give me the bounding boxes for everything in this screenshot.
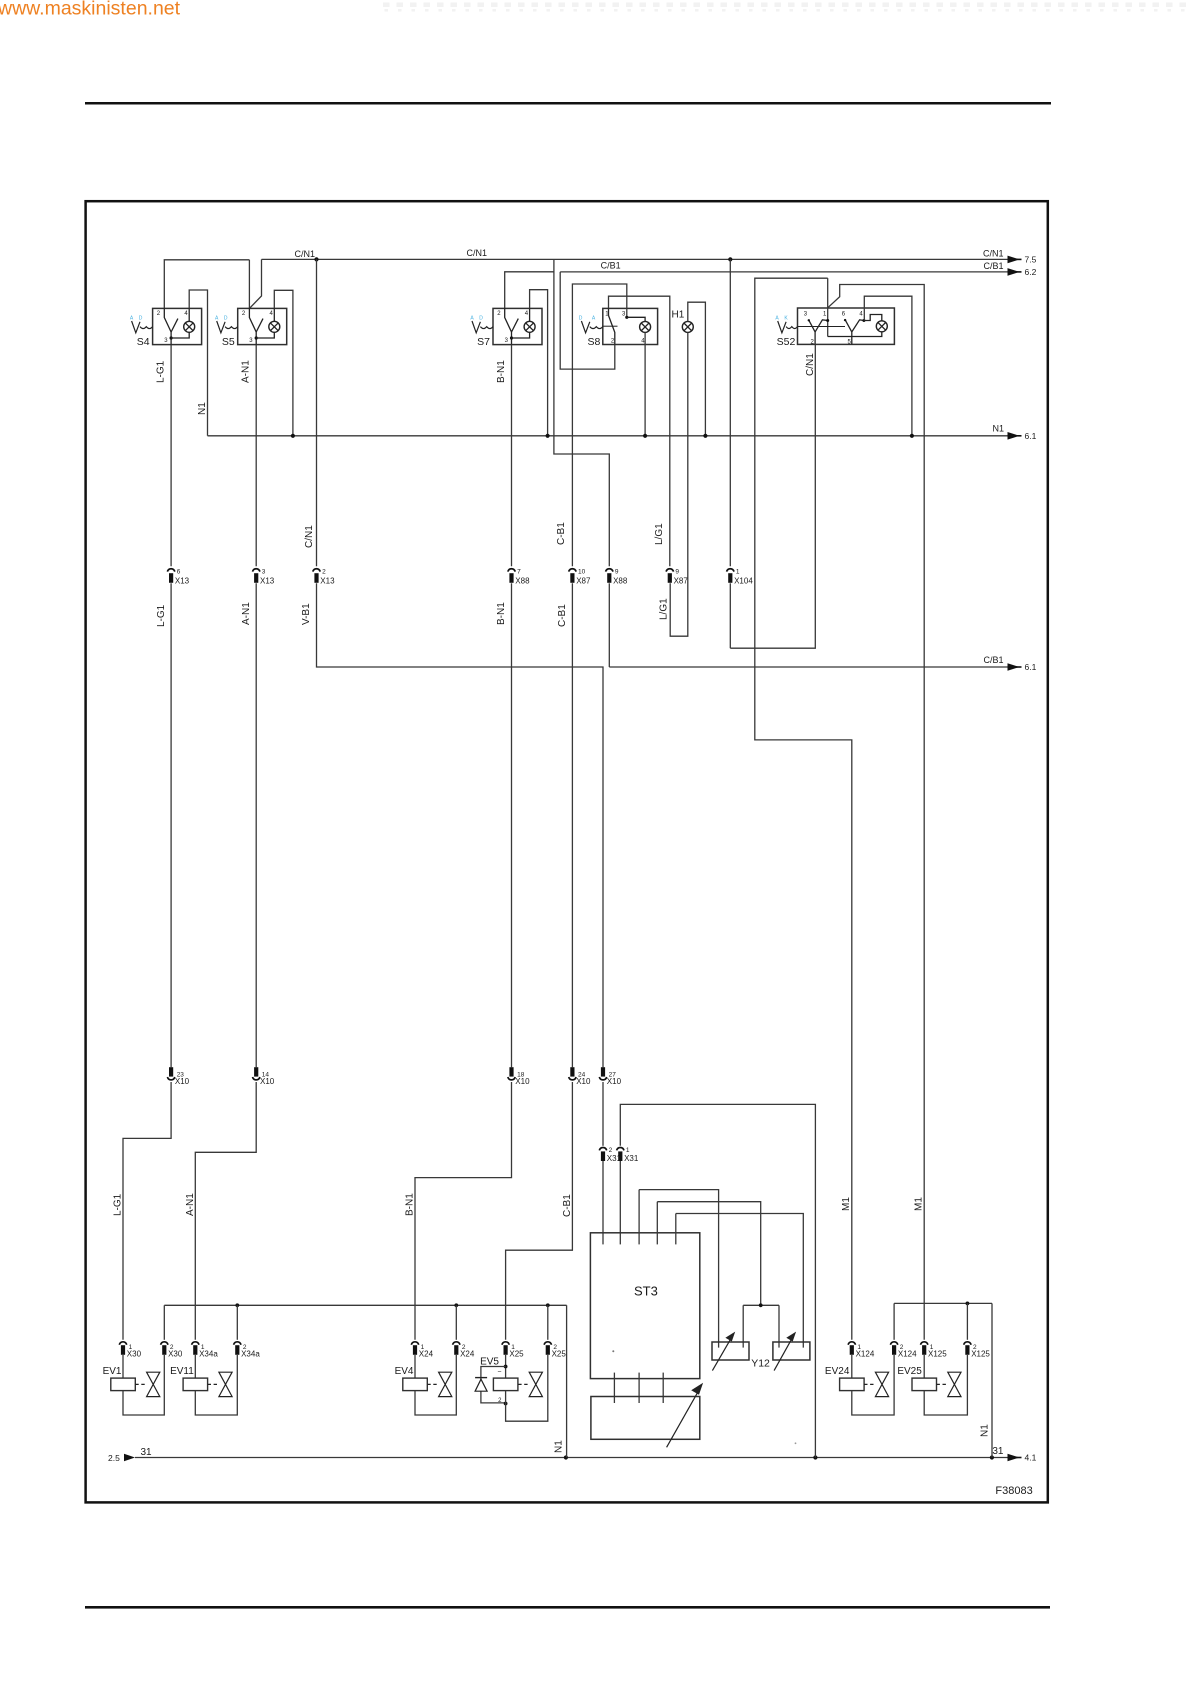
arrow 31 from 2.5: [124, 1454, 135, 1462]
wire S4 pin3 L-G1 down to X13: [170, 345, 172, 567]
wire X124-2 riser: [893, 1303, 895, 1339]
bus N1 of EV group right: [894, 1302, 992, 1304]
node N1 H1: [703, 434, 707, 438]
svg-text:L/G1: L/G1: [659, 598, 670, 620]
svg-text:C/N1: C/N1: [983, 249, 1004, 259]
wire C/N1 to X104 pin1: [729, 259, 731, 566]
wire EV1 return loop: [123, 1355, 164, 1415]
valve EV4 symbol: [427, 1383, 438, 1385]
svg-text:C/N1: C/N1: [294, 249, 315, 259]
connector X10 pin 14: [254, 1067, 258, 1076]
connector X88 pin 9: [606, 569, 613, 572]
wire EV4 return loop: [415, 1355, 456, 1415]
svg-text:S8: S8: [587, 336, 600, 348]
connector X30 pin 1: [119, 1342, 126, 1345]
svg-text:F38083: F38083: [995, 1485, 1032, 1497]
svg-text:A-N1: A-N1: [185, 1193, 196, 1216]
connector X13 pin 2: [313, 569, 320, 572]
lamp in S5: [273, 308, 275, 321]
stray mark in ST3: [612, 1350, 614, 1352]
top rule: [85, 102, 1051, 105]
wire S52 lamp step: [864, 315, 882, 321]
node N1 S7: [546, 434, 550, 438]
connector X124 pin 1: [848, 1342, 855, 1345]
svg-text:6.1: 6.1: [1025, 431, 1037, 441]
connector X13 pin 3: [253, 569, 260, 572]
svg-text:H1: H1: [672, 309, 685, 320]
svg-text:7.5: 7.5: [1025, 254, 1037, 264]
svg-text:C/N1: C/N1: [805, 353, 816, 376]
svg-text:1: 1: [626, 1147, 630, 1154]
arrow C/N1 to 7.5: [1008, 256, 1020, 264]
svg-text:S4: S4: [137, 336, 150, 348]
wire X10-27 to X31 pin2: [602, 1082, 604, 1146]
control unit ST3 body: [590, 1233, 699, 1379]
bus N1: [208, 435, 1008, 437]
wire EV5 return loop: [506, 1355, 548, 1421]
svg-text:S5: S5: [222, 336, 235, 348]
node Y12 center: [759, 1303, 763, 1307]
ST3 sensor arrow: [667, 1392, 698, 1448]
wire S5 pin2 diagonal to C/N1: [249, 259, 261, 308]
svg-text:X31: X31: [624, 1154, 639, 1163]
svg-text:Y12: Y12: [751, 1357, 770, 1369]
svg-text:2.5: 2.5: [108, 1453, 120, 1463]
bus 31 bottom: [135, 1457, 1008, 1459]
svg-text:EV1: EV1: [103, 1366, 122, 1377]
svg-text:M1: M1: [914, 1197, 925, 1211]
valve EV24 symbol: [864, 1383, 875, 1385]
connector X24 pin 1: [411, 1342, 418, 1345]
svg-text:9: 9: [615, 569, 619, 576]
wire X31-1 to ST3 pin: [619, 1161, 621, 1244]
solenoid Y12 coil b: [773, 1342, 810, 1360]
svg-text:X124: X124: [898, 1350, 917, 1359]
arrow C/B1 to 6.2: [1008, 268, 1020, 276]
svg-text:6.1: 6.1: [1025, 662, 1037, 672]
connector X25 pin 2: [544, 1342, 551, 1345]
valve EV1 symbol: [135, 1383, 146, 1385]
wire S4 pin4 to N1: [189, 290, 207, 436]
node 31 x992: [990, 1455, 994, 1459]
connector X10 pin 24: [570, 1067, 574, 1076]
svg-text:N1: N1: [992, 424, 1004, 434]
connector X10 pin 27: [601, 1067, 605, 1076]
svg-text:X10: X10: [260, 1077, 275, 1086]
switch S4 actuator: [132, 321, 140, 333]
connector X30 pin 2: [161, 1342, 168, 1345]
switch S8 body: [603, 308, 658, 344]
svg-text:B-N1: B-N1: [496, 360, 507, 383]
wire EV11 return loop: [195, 1355, 237, 1415]
connector X125 pin 1: [921, 1342, 928, 1345]
wire X88 pin9 to C/B1 lower bus: [608, 583, 610, 667]
svg-text:−: −: [497, 1369, 501, 1376]
wire S5 pin2 riser: [248, 260, 250, 309]
arrow N1 to 6.1: [1008, 432, 1020, 440]
svg-text:X10: X10: [175, 1077, 190, 1086]
connector X104 pin 1: [727, 569, 734, 572]
svg-text:N1: N1: [980, 1424, 991, 1437]
node S8 pin3: [625, 316, 628, 319]
svg-text:www.maskinisten.net: www.maskinisten.net: [0, 0, 181, 20]
node bus X24-2: [454, 1303, 458, 1307]
wire right group to 31 N1: [991, 1303, 993, 1457]
node N1 S8: [643, 434, 647, 438]
connector X125 pin 2: [964, 1342, 971, 1345]
svg-text:X24: X24: [460, 1350, 475, 1359]
node bus X34a2: [235, 1303, 239, 1307]
connector X24 pin 2: [453, 1342, 460, 1345]
valve EV1 coil: [111, 1378, 136, 1391]
connector X34a pin 2: [234, 1342, 241, 1345]
switch S8 actuator: [581, 321, 589, 333]
wire ST3 to Y12 coil a left: [639, 1190, 719, 1348]
wire X104 below: [729, 583, 731, 648]
arrow 31 to 4.1: [1008, 1454, 1020, 1462]
node C/N1 x316: [314, 257, 318, 261]
svg-text:X88: X88: [515, 577, 530, 586]
svg-text:X10: X10: [576, 1077, 591, 1086]
svg-text:X125: X125: [928, 1350, 947, 1359]
ST3 sensor box: [591, 1397, 700, 1440]
connector X31 pin 2: [599, 1148, 606, 1151]
wire H1 top to N1: [688, 302, 706, 436]
node EV5 top: [504, 1365, 508, 1369]
wire S4 pin2 to S5 pin2: [164, 260, 249, 309]
svg-text:B-N1: B-N1: [404, 1193, 415, 1216]
wire X30-1 to EV1: [122, 1355, 124, 1378]
svg-text:X25: X25: [552, 1350, 567, 1359]
switch S5 actuator: [217, 321, 225, 333]
svg-text:EV5: EV5: [480, 1357, 499, 1368]
wire S52 lamp bottom to pin1: [828, 332, 882, 337]
switch S5 lever: [249, 308, 256, 332]
svg-text:X30: X30: [168, 1350, 183, 1359]
wire X10-14 to X34a pin1 A-N1: [195, 1082, 256, 1340]
top edge faint pattern: [383, 3, 1186, 12]
wire C/N1 to X88 pin9 via right jog: [554, 259, 609, 566]
svg-text:A-N1: A-N1: [241, 602, 252, 625]
wire S52 pin1 diagonal route to EV25: [828, 285, 925, 1340]
svg-text:N1: N1: [197, 402, 208, 415]
connector X87 pin 9: [666, 569, 673, 572]
wire bus to X25 pin2: [547, 1305, 549, 1340]
switch S7 actuator: [472, 321, 480, 333]
valve EV5 coil: [493, 1378, 518, 1391]
svg-text:A-N1: A-N1: [241, 360, 252, 383]
wire bus left group to 31: [566, 1305, 568, 1457]
svg-text:B-N1: B-N1: [496, 602, 507, 625]
wire S52 pin1 riser from C/N1 route: [827, 278, 829, 336]
switch S7 pin 3 node: [510, 336, 513, 339]
wire Y12 center junction bar: [743, 1304, 779, 1306]
wire S5 pin3 A-N1 down to X13: [255, 345, 257, 567]
svg-text:2: 2: [322, 569, 326, 576]
switch S4 pin 3 node: [170, 336, 173, 339]
ST3 bottom pin stubs: [613, 1373, 615, 1403]
svg-text:EV4: EV4: [395, 1366, 414, 1377]
wire V-B1 X13-2 to X10-27: [317, 583, 604, 1067]
connector X10 pin 23: [169, 1067, 173, 1076]
wire S52 pin2 C/N1 to X104: [730, 344, 815, 648]
svg-text:X10: X10: [607, 1077, 622, 1086]
Y12 coil a arrow: [712, 1338, 731, 1370]
svg-text:L/G1: L/G1: [654, 523, 665, 545]
svg-text:9: 9: [675, 569, 679, 576]
switch S4 lever: [164, 308, 171, 332]
switch S7 lever: [505, 308, 512, 332]
svg-text:X10: X10: [515, 1077, 530, 1086]
valve EV25 symbol: [937, 1383, 948, 1385]
svg-text:1: 1: [736, 569, 740, 576]
wire H1 bottom to X87 pin9 L/G1: [670, 332, 688, 636]
valve EV11 coil: [183, 1378, 208, 1391]
bus C/N1: [262, 258, 1008, 260]
lamp in S8: [640, 321, 651, 332]
svg-text:X13: X13: [320, 577, 335, 586]
svg-text:3: 3: [262, 569, 266, 576]
wire L-G1 X13-6 to X10-23: [170, 583, 172, 1067]
switch S52 actuator: [778, 321, 786, 333]
Y12 coil b arrow: [774, 1338, 792, 1370]
switch S52 lever b: [845, 320, 852, 332]
bus C/B1 upper: [560, 271, 1007, 273]
node EV5 bottom: [504, 1402, 508, 1406]
svg-text:X25: X25: [509, 1350, 524, 1359]
wire C/N1 junction down to X13 pin2: [316, 259, 318, 566]
valve EV5 symbol: [518, 1383, 528, 1385]
wire S8 pin3 to lamp: [627, 317, 645, 321]
wire bus to X30 pin2: [163, 1305, 165, 1340]
svg-text:6.2: 6.2: [1025, 267, 1037, 277]
wire X25-1 to EV5: [505, 1355, 507, 1378]
wire S8 pin1 to X87 pin9: [609, 296, 670, 566]
wire S8 lamp to N1: [644, 332, 646, 435]
svg-text:S52: S52: [777, 336, 796, 348]
svg-text:D: D: [479, 316, 483, 322]
wire X125-1 to EV25: [923, 1355, 925, 1378]
svg-text:D: D: [224, 316, 228, 322]
svg-text:2: 2: [609, 1147, 613, 1154]
switch S5 pin 3 node: [255, 336, 258, 339]
svg-text:X104: X104: [734, 577, 753, 586]
lamp in S4: [188, 308, 190, 321]
svg-text:X34a: X34a: [241, 1350, 260, 1359]
arrow C/B1 lower to 6.1: [1008, 663, 1020, 671]
svg-text:X87: X87: [576, 577, 591, 586]
svg-text:X34a: X34a: [199, 1350, 218, 1359]
wire S8 pin2 to C/B1: [560, 272, 615, 369]
svg-text:X30: X30: [127, 1350, 142, 1359]
svg-text:6: 6: [177, 569, 181, 576]
wire X10-18 to X24 pin1 B-N1: [415, 1082, 512, 1340]
svg-text:C/B1: C/B1: [983, 261, 1003, 271]
node S52 pin1 contact: [826, 319, 829, 322]
svg-text:M1: M1: [841, 1197, 852, 1211]
switch S52 body: [798, 308, 895, 344]
switch S52 lever a: [809, 320, 816, 332]
wire ST3 to Y12 coil b right: [676, 1214, 804, 1348]
node 31 x815: [813, 1455, 817, 1459]
switch S8 lever: [608, 308, 610, 315]
wire B-N1 X88-7 to X10-18: [511, 583, 513, 1067]
wire S7 pin2 riser to junction: [505, 272, 554, 309]
svg-text:C/B1: C/B1: [983, 655, 1003, 665]
valve EV24 coil: [840, 1378, 865, 1391]
svg-text:X24: X24: [419, 1350, 434, 1359]
valve EV25 coil: [912, 1378, 937, 1391]
wire X10-23 to X30 pin1 L-G1: [123, 1082, 171, 1340]
wire bus to X24 pin2: [455, 1305, 457, 1340]
svg-text:S7: S7: [477, 336, 490, 348]
diode bypass EV5: [481, 1367, 506, 1403]
border frame: [86, 201, 1048, 1502]
svg-text:EV11: EV11: [170, 1366, 194, 1377]
diode EV5: [475, 1377, 487, 1379]
wire A-N1 X13-3 to X10-14: [255, 583, 257, 1067]
svg-text:L-G1: L-G1: [156, 360, 167, 383]
solenoid Y12 coil a: [712, 1342, 749, 1360]
svg-text:4.1: 4.1: [1025, 1453, 1037, 1463]
svg-text:X87: X87: [674, 577, 689, 586]
node 31 x566: [564, 1455, 568, 1459]
svg-text:N1: N1: [554, 1440, 565, 1453]
node N1 S52: [910, 434, 914, 438]
wire bus to X34a pin2: [236, 1305, 238, 1340]
wire X124-1 to EV24: [851, 1355, 853, 1378]
svg-text:C/B1: C/B1: [601, 260, 621, 270]
wire X31-1 up and over to 31 bus: [620, 1104, 815, 1457]
wire EV24 return loop: [852, 1355, 894, 1415]
lamp in S7: [529, 308, 531, 321]
switch S4 body: [153, 308, 202, 344]
wire X34a-1 to EV11: [194, 1355, 196, 1378]
svg-text:C-B1: C-B1: [557, 604, 568, 627]
ST3 top pin stubs: [638, 1190, 640, 1245]
wire X125-2 riser: [966, 1303, 968, 1339]
svg-text:X13: X13: [175, 577, 190, 586]
svg-text:X88: X88: [613, 577, 628, 586]
svg-text:L-G1: L-G1: [113, 1193, 124, 1216]
svg-text:X13: X13: [260, 577, 275, 586]
bus C/B1 lower: [609, 666, 1007, 668]
connector X34a pin 1: [192, 1342, 199, 1345]
wire C-B1 X87-10 to X10-24: [571, 583, 573, 1067]
wire EV25 return loop: [924, 1355, 967, 1415]
svg-text:EV25: EV25: [897, 1366, 922, 1377]
svg-text:C-B1: C-B1: [556, 522, 567, 545]
node S52 pin4 contact: [862, 319, 865, 322]
wire X10-24 to X25 pin1 C-B1: [506, 1082, 573, 1340]
connector X88 pin 7: [508, 569, 515, 572]
connector X25 pin 1: [502, 1342, 509, 1345]
svg-text:X124: X124: [856, 1350, 875, 1359]
wire S7 pin4 to N1: [530, 290, 548, 436]
connector X87 pin 10: [569, 569, 576, 572]
svg-text:C/N1: C/N1: [304, 525, 315, 548]
svg-text:10: 10: [578, 569, 586, 576]
bottom rule: [85, 1606, 1050, 1609]
node bus X125-2: [966, 1302, 970, 1306]
wire X31-2 to ST3 pin: [602, 1161, 604, 1244]
wire S7 pin3 B-N1 down to X88: [511, 345, 513, 567]
bus N1 of EV group left: [164, 1304, 566, 1306]
valve EV11 symbol: [208, 1383, 219, 1385]
node N1 S5: [291, 434, 295, 438]
wire C-B1 X87 pin10 to S8 pin3: [572, 284, 626, 566]
wire X24-1 to EV4: [414, 1355, 416, 1378]
svg-text:EV24: EV24: [825, 1366, 850, 1377]
node C/N1 x730: [728, 257, 732, 261]
svg-text:C/N1: C/N1: [466, 248, 487, 258]
lamp in S52: [876, 321, 887, 332]
node bus X25-2: [546, 1303, 550, 1307]
svg-text:31: 31: [992, 1446, 1004, 1457]
valve EV4 coil: [403, 1378, 428, 1391]
svg-text:D: D: [579, 316, 583, 322]
connector X13 pin 6: [167, 569, 174, 572]
connector X10 pin 18: [509, 1067, 513, 1076]
svg-text:L-G1: L-G1: [156, 604, 167, 627]
svg-text:X125: X125: [971, 1350, 990, 1359]
svg-text:V-B1: V-B1: [301, 603, 312, 625]
lamp H1: [682, 321, 693, 332]
wire S52 pin4 to N1: [864, 296, 912, 436]
switch S5 body: [238, 308, 287, 344]
svg-text:C-B1: C-B1: [562, 1194, 573, 1217]
wire ST3 to Y12 center: [657, 1202, 760, 1306]
connector X31 pin 1: [617, 1148, 624, 1151]
svg-text:D: D: [139, 316, 143, 322]
wire S52 pin1 left route to EV24: [755, 278, 852, 1340]
connector X124 pin 2: [890, 1342, 897, 1345]
svg-text:ST3: ST3: [634, 1284, 658, 1299]
wire S5 pin4 to N1: [274, 290, 293, 436]
svg-text:31: 31: [141, 1447, 153, 1458]
svg-text:7: 7: [517, 569, 521, 576]
switch S7 body: [493, 308, 542, 344]
